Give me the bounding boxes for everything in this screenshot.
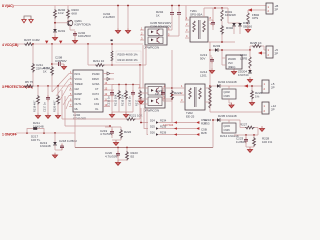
wire bbox=[54, 133, 56, 142]
svg-text:DRV2: DRV2 bbox=[92, 77, 99, 81]
svg-text:C217 1n: C217 1n bbox=[43, 102, 47, 112]
wire bbox=[221, 35, 223, 42]
ground bbox=[247, 77, 252, 82]
svg-text:PGND: PGND bbox=[92, 72, 100, 76]
resistor R209 bbox=[111, 51, 113, 56]
svg-text:JPWRCON: JPWRCON bbox=[144, 109, 159, 113]
inductor L202 bbox=[247, 10, 249, 13]
wire bbox=[117, 6, 119, 29]
resistor R210 bbox=[111, 56, 113, 61]
wire bbox=[171, 14, 173, 30]
pin stubs T201 bbox=[185, 19, 190, 21]
resistor R223 bbox=[126, 148, 128, 152]
svg-text:R28: R28 bbox=[201, 131, 207, 135]
svg-text:2P: 2P bbox=[275, 8, 279, 12]
svg-text:R209 4K99 1%: R209 4K99 1% bbox=[118, 53, 139, 57]
svg-text:D201: D201 bbox=[58, 29, 66, 33]
capacitor C220 bbox=[117, 148, 119, 152]
wire bbox=[54, 32, 56, 35]
IC pin numbers bbox=[70, 71, 108, 107]
pin stubs U201 right bbox=[167, 29, 172, 31]
junction bbox=[171, 87, 173, 89]
svg-text:OUT1: OUT1 bbox=[75, 102, 82, 106]
junction bbox=[43, 132, 45, 134]
svg-text:ZD206: ZD206 bbox=[228, 57, 236, 61]
connector CN204 bbox=[262, 80, 269, 93]
svg-text:1%: 1% bbox=[255, 95, 260, 99]
connector CN203 bbox=[262, 102, 269, 114]
wire VCC rail bbox=[34, 43, 143, 45]
svg-text:SPS-05A: SPS-05A bbox=[190, 13, 202, 17]
capacitor C219 bbox=[105, 126, 121, 128]
svg-text:D203: D203 bbox=[213, 44, 221, 48]
capacitor C206 bbox=[178, 6, 180, 13]
opto diode B bbox=[151, 39, 154, 42]
resistor network R209/R210 bbox=[111, 44, 113, 51]
svg-text:L201: L201 bbox=[200, 74, 207, 78]
wire bbox=[127, 6, 129, 29]
junction bbox=[57, 85, 59, 87]
wire bbox=[67, 6, 69, 10]
wire bbox=[67, 19, 69, 21]
op-amp U202 box bbox=[73, 70, 103, 112]
ground bbox=[109, 112, 114, 117]
svg-text:8 V(AC): 8 V(AC) bbox=[2, 4, 14, 8]
junction bbox=[221, 49, 223, 51]
svg-text:C218 1U/50V: C218 1U/50V bbox=[59, 139, 77, 143]
junction bbox=[51, 43, 53, 45]
wire bbox=[246, 146, 254, 148]
ground bbox=[138, 99, 143, 104]
opto U203 box bbox=[145, 84, 165, 108]
svg-text:2P: 2P bbox=[275, 52, 279, 56]
ground bbox=[45, 113, 50, 118]
wire bbox=[55, 22, 69, 24]
zener ZD204 bbox=[249, 68, 251, 70]
ground bbox=[113, 140, 118, 145]
capacitor C208 bbox=[52, 63, 58, 65]
wire bbox=[145, 45, 147, 65]
svg-text:1 ON/OFF: 1 ON/OFF bbox=[2, 133, 17, 137]
red arrow bbox=[244, 84, 248, 87]
svg-text:RAMP: RAMP bbox=[75, 92, 83, 96]
resistor R212 bbox=[51, 66, 54, 76]
wire bbox=[111, 136, 113, 138]
wire bottom bus bbox=[112, 111, 133, 113]
ground bbox=[123, 112, 128, 117]
junction bbox=[117, 147, 119, 149]
svg-text:1K: 1K bbox=[43, 70, 47, 74]
svg-text:R236: R236 bbox=[160, 131, 167, 135]
svg-text:R5 75: R5 75 bbox=[25, 80, 33, 84]
svg-text:CPS: CPS bbox=[252, 16, 258, 20]
resistor R202 bbox=[54, 9, 57, 19]
opto diode 2 bbox=[151, 100, 154, 103]
wire bbox=[212, 8, 214, 20]
junction bbox=[245, 134, 247, 136]
transistor Q201 bbox=[67, 20, 73, 26]
svg-text:R211 10: R211 10 bbox=[93, 59, 104, 63]
IC right pin stubs bbox=[103, 73, 107, 75]
resistor R217 bbox=[139, 85, 141, 91]
svg-text:R234: R234 bbox=[160, 119, 167, 123]
red mark bbox=[196, 133, 199, 136]
svg-text:D25: D25 bbox=[150, 125, 155, 129]
svg-text:3V3: 3V3 bbox=[228, 61, 233, 65]
svg-text:KSP/TO92A: KSP/TO92A bbox=[75, 23, 91, 27]
inductor L204 winding bbox=[209, 86, 211, 97]
junction bbox=[118, 84, 120, 86]
svg-text:4 VCC(CB): 4 VCC(CB) bbox=[2, 43, 18, 47]
ground bbox=[22, 20, 26, 23]
capacitor C216 bbox=[132, 85, 134, 91]
svg-text:100n/50V: 100n/50V bbox=[78, 34, 91, 38]
capacitor C215 bbox=[111, 85, 113, 91]
capacitor C217 bbox=[47, 86, 49, 95]
svg-text:C945: C945 bbox=[224, 94, 231, 98]
junction bbox=[209, 85, 211, 87]
diode D204 bbox=[217, 84, 220, 88]
svg-text:R216 10K: R216 10K bbox=[121, 94, 125, 106]
IC left diagonal fan wires bbox=[52, 74, 69, 93]
pin stubs U201 left bbox=[140, 29, 145, 31]
svg-text:EE-25: EE-25 bbox=[186, 115, 195, 119]
junction bbox=[117, 5, 119, 7]
junction bbox=[127, 5, 129, 7]
connector CN201 bbox=[266, 3, 273, 14]
svg-text:C216 1n: C216 1n bbox=[128, 96, 132, 106]
svg-text:4.7U/50V: 4.7U/50V bbox=[100, 132, 113, 136]
svg-text:D24: D24 bbox=[150, 119, 155, 123]
ground bbox=[61, 64, 66, 69]
resistor R220 bbox=[57, 86, 59, 95]
svg-text:Q203: Q203 bbox=[224, 124, 231, 128]
svg-text:D26: D26 bbox=[150, 131, 155, 135]
resistor R203 bbox=[67, 9, 70, 19]
svg-text:1N4744: 1N4744 bbox=[238, 73, 249, 77]
ground bbox=[55, 113, 60, 118]
svg-text:1C2: 1C2 bbox=[58, 11, 64, 15]
svg-text:INV2: INV2 bbox=[75, 97, 81, 101]
junction bbox=[221, 7, 223, 9]
svg-text:R217: R217 bbox=[135, 99, 139, 106]
junction bbox=[109, 125, 111, 127]
junction bbox=[171, 98, 173, 100]
transformer T202 bbox=[185, 84, 205, 110]
svg-text:R222: R222 bbox=[124, 130, 132, 134]
wire bbox=[74, 112, 76, 148]
wire bbox=[61, 90, 63, 119]
svg-text:CX2: CX2 bbox=[94, 102, 100, 106]
ground bbox=[72, 38, 77, 43]
wire transformer to rail bbox=[185, 6, 187, 21]
svg-text:2.2u/50V: 2.2u/50V bbox=[103, 15, 115, 19]
wire bbox=[212, 120, 214, 148]
junction bbox=[212, 119, 214, 121]
svg-text:INV1: INV1 bbox=[75, 72, 81, 76]
svg-text:OUT2: OUT2 bbox=[92, 92, 99, 96]
svg-text:L2R5: L2R5 bbox=[240, 57, 248, 61]
wire bbox=[172, 94, 180, 96]
wire drop 1 bbox=[141, 108, 148, 123]
red mark bbox=[174, 133, 177, 135]
junction bbox=[54, 22, 56, 24]
ground bbox=[52, 153, 57, 158]
red mark bbox=[196, 127, 199, 130]
tick mark bbox=[111, 40, 113, 42]
svg-text:2P: 2P bbox=[271, 108, 275, 112]
wire 12V feed bbox=[210, 111, 262, 113]
wire bbox=[54, 19, 56, 30]
svg-text:4.7U/50V: 4.7U/50V bbox=[105, 155, 118, 159]
ground bbox=[29, 20, 33, 23]
svg-text:B2: B2 bbox=[131, 155, 135, 159]
junction bbox=[209, 49, 211, 51]
secondary coil bbox=[203, 21, 205, 32]
resistor R228 bbox=[253, 135, 255, 137]
svg-text:CT: CT bbox=[95, 87, 99, 91]
wire top rail bbox=[14, 5, 266, 7]
diode D203 bbox=[210, 49, 215, 51]
diode D205 bbox=[217, 118, 220, 122]
net arrow bbox=[45, 41, 48, 44]
junction bbox=[251, 85, 253, 87]
svg-text:1U/50V: 1U/50V bbox=[236, 140, 246, 144]
ground bbox=[259, 126, 264, 131]
wire emitter down bbox=[69, 26, 71, 30]
svg-text:R227: R227 bbox=[240, 123, 248, 127]
junction bbox=[111, 64, 113, 66]
svg-text:R210 4K99 1%: R210 4K99 1% bbox=[118, 58, 139, 62]
svg-text:D204 1N4148: D204 1N4148 bbox=[218, 80, 237, 84]
transistor Q203 bbox=[222, 123, 236, 133]
red mark bbox=[174, 121, 177, 123]
snubber coil L201 bbox=[221, 8, 223, 10]
transistor Q202 bbox=[222, 89, 236, 99]
wire bbox=[51, 44, 53, 66]
svg-text:R302: R302 bbox=[226, 26, 234, 30]
output connector pin line bbox=[248, 9, 266, 11]
resistor R226 bbox=[251, 86, 253, 90]
regulator box U204 bbox=[226, 55, 242, 69]
resistor R207 bbox=[24, 43, 34, 46]
svg-text:1N4148: 1N4148 bbox=[40, 144, 51, 148]
wire bbox=[117, 158, 119, 160]
junction bbox=[111, 43, 113, 45]
junction bbox=[37, 85, 39, 87]
junction bbox=[140, 122, 142, 124]
ground bbox=[231, 69, 236, 74]
wire bbox=[34, 85, 73, 87]
wire bbox=[54, 6, 56, 10]
IC U201 box (dual opto) bbox=[145, 27, 167, 45]
svg-text:R220 4K7: R220 4K7 bbox=[53, 100, 57, 112]
resistor R208 bbox=[32, 63, 35, 73]
junction bbox=[171, 5, 173, 7]
junction bbox=[132, 84, 134, 86]
red mark bbox=[196, 121, 199, 124]
wire bbox=[171, 50, 173, 122]
junction bbox=[47, 85, 49, 87]
resistor R219 bbox=[37, 86, 39, 95]
wire bbox=[228, 22, 240, 24]
capacitor C205 bbox=[171, 6, 173, 13]
svg-text:R235: R235 bbox=[160, 125, 167, 129]
connector CN202 bbox=[266, 46, 273, 58]
inductor L203 bbox=[249, 50, 251, 57]
svg-text:C945: C945 bbox=[224, 128, 231, 132]
resistor R215 bbox=[118, 85, 120, 91]
ground bbox=[52, 35, 57, 40]
resistor R222 bbox=[120, 127, 122, 129]
diode D213 bbox=[53, 142, 57, 145]
diode D302 bbox=[232, 23, 236, 26]
junction bbox=[51, 63, 53, 65]
svg-text:TIMER: TIMER bbox=[75, 82, 83, 86]
ground bbox=[35, 113, 40, 118]
svg-text:100 1%: 100 1% bbox=[262, 140, 273, 144]
junction bbox=[87, 43, 89, 45]
wire bbox=[209, 42, 211, 112]
opto diode 1 bbox=[151, 89, 154, 92]
svg-text:GM: GM bbox=[75, 87, 79, 91]
junction bbox=[178, 5, 180, 7]
svg-text:C30/50V: C30/50V bbox=[55, 59, 67, 63]
ground bbox=[245, 27, 250, 32]
wire bbox=[16, 132, 75, 134]
wire bbox=[210, 85, 217, 87]
resistor R216 bbox=[125, 85, 127, 91]
wire drop 2 bbox=[144, 108, 148, 129]
capacitor C218 bbox=[54, 145, 56, 150]
svg-text:50V: 50V bbox=[200, 57, 205, 61]
svg-text:GVDA: GVDA bbox=[92, 82, 100, 86]
IC left pin stubs bbox=[69, 73, 73, 75]
red arrow pin bbox=[258, 51, 262, 54]
junction bbox=[249, 49, 251, 51]
snubber cap C207 bbox=[208, 19, 213, 21]
wire drop 3 bbox=[147, 108, 148, 135]
pin stubs T202 bbox=[180, 87, 185, 89]
svg-text:VCCA: VCCA bbox=[75, 77, 82, 81]
ground bbox=[115, 28, 120, 33]
wire bbox=[172, 87, 180, 89]
ground bbox=[249, 100, 254, 105]
resistor R224 bbox=[171, 90, 174, 100]
junction bbox=[32, 43, 34, 45]
pin stubs opto bbox=[138, 87, 148, 89]
wire bbox=[142, 45, 144, 88]
junction bbox=[26, 132, 28, 134]
wire bus bbox=[75, 147, 213, 149]
bypass loop with diode D212 bbox=[27, 129, 44, 134]
capacitor C222 bbox=[210, 55, 212, 57]
svg-text:LX1: LX1 bbox=[94, 97, 99, 101]
svg-text:ML: ML bbox=[75, 107, 79, 111]
wire bbox=[64, 96, 66, 126]
wire bbox=[139, 65, 141, 85]
wire bbox=[233, 26, 235, 34]
resistor R302 bbox=[221, 21, 223, 25]
svg-text:C215 1n: C215 1n bbox=[107, 96, 111, 106]
svg-text:R207 C1R2: R207 C1R2 bbox=[24, 38, 40, 42]
wire top bus bbox=[112, 84, 140, 86]
svg-text:1K: 1K bbox=[156, 14, 160, 18]
opto diode A bbox=[151, 31, 154, 34]
junction bbox=[126, 147, 128, 149]
svg-text:Q202: Q202 bbox=[224, 90, 231, 94]
junction bbox=[125, 84, 127, 86]
wire bbox=[178, 14, 180, 36]
wire bbox=[163, 100, 172, 102]
capacitor C202 bbox=[73, 31, 77, 38]
wire bbox=[17, 43, 24, 45]
svg-text:(REG): (REG) bbox=[228, 65, 235, 69]
ground bbox=[125, 28, 130, 33]
svg-text:R225 1K: R225 1K bbox=[250, 41, 262, 45]
junction bbox=[253, 134, 255, 136]
svg-text:1R0/4W: 1R0/4W bbox=[225, 13, 236, 17]
junction bbox=[54, 132, 56, 134]
junction bbox=[139, 64, 141, 66]
diode D303 bbox=[238, 23, 242, 26]
svg-text:1K: 1K bbox=[155, 92, 159, 96]
red mark bbox=[174, 127, 177, 129]
svg-text:2P: 2P bbox=[271, 86, 275, 90]
primary coil bbox=[193, 21, 195, 32]
red arrow B+ bbox=[248, 8, 252, 11]
capacitor C221 bbox=[162, 88, 164, 90]
svg-text:OL: OL bbox=[95, 107, 99, 111]
svg-text:R215 10K: R215 10K bbox=[114, 94, 118, 106]
ground bbox=[229, 103, 234, 108]
diode D201 bbox=[53, 29, 57, 32]
capacitor C223 bbox=[245, 135, 247, 137]
junction bbox=[214, 7, 216, 9]
ground bbox=[115, 160, 120, 165]
svg-text:6K8: 6K8 bbox=[72, 12, 78, 16]
wire bbox=[247, 24, 249, 27]
wire bbox=[32, 44, 34, 63]
svg-text:R27: R27 bbox=[201, 122, 207, 126]
svg-text:R219 4K7: R219 4K7 bbox=[33, 100, 37, 112]
transformer T201 bbox=[190, 17, 208, 42]
ground bbox=[247, 147, 252, 152]
junction bbox=[171, 94, 173, 96]
ground bbox=[209, 68, 214, 73]
net arrow bbox=[59, 41, 62, 44]
wire bbox=[234, 134, 258, 136]
ground pair top-left bbox=[24, 16, 31, 20]
junction bbox=[221, 41, 223, 43]
svg-text:D205 1N4148: D205 1N4148 bbox=[218, 114, 237, 118]
